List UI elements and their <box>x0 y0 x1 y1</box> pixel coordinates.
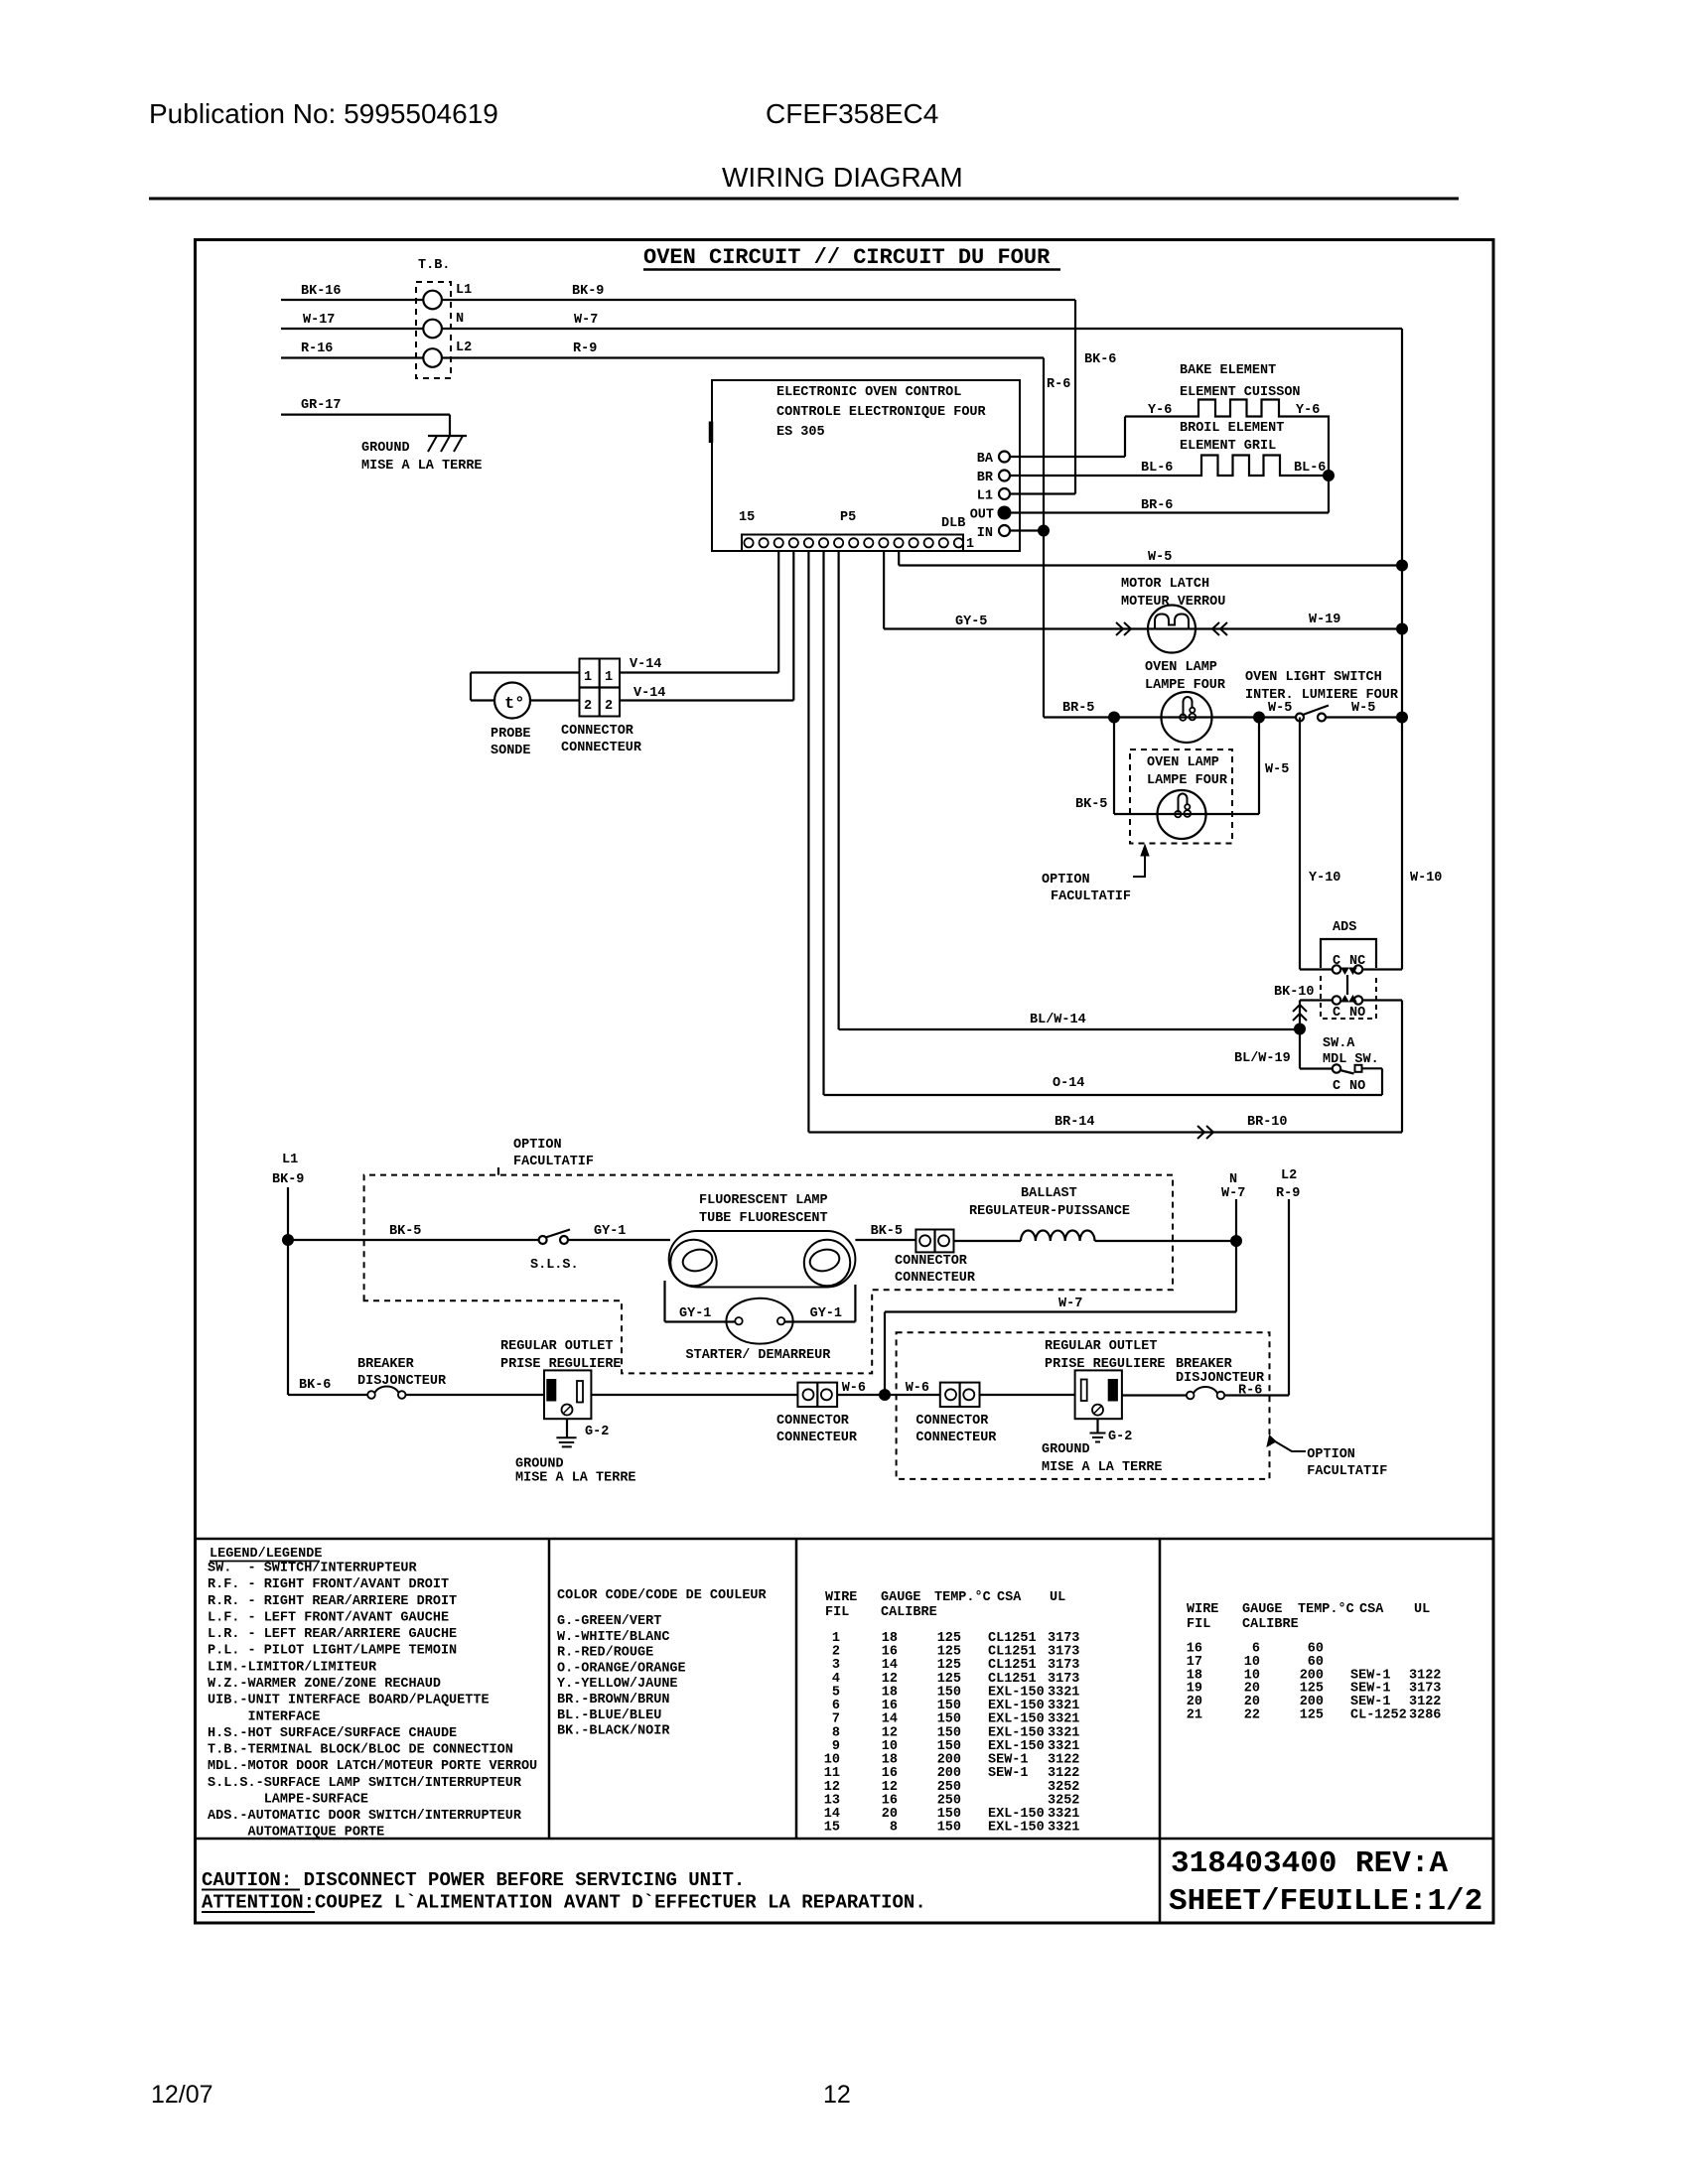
svg-text:UL: UL <box>1050 1590 1065 1605</box>
svg-text:LEGEND/LEGENDE: LEGEND/LEGENDE <box>210 1547 322 1562</box>
svg-text:Y-6: Y-6 <box>1296 403 1320 418</box>
svg-text:2: 2 <box>584 699 592 714</box>
svg-text:T.B.-TERMINAL BLOCK/BLOC DE CO: T.B.-TERMINAL BLOCK/BLOC DE CONNECTION <box>208 1743 513 1758</box>
svg-text:GY-1: GY-1 <box>594 1224 626 1239</box>
svg-text:L1: L1 <box>282 1153 298 1167</box>
svg-text:EXL-150: EXL-150 <box>988 1821 1045 1836</box>
svg-text:BREAKER: BREAKER <box>357 1357 415 1372</box>
svg-text:21: 21 <box>1187 1708 1202 1723</box>
svg-text:OUT: OUT <box>970 508 994 523</box>
svg-text:BL-6: BL-6 <box>1141 461 1173 476</box>
svg-text:NO: NO <box>1349 1006 1365 1021</box>
svg-text:GY-1: GY-1 <box>810 1306 842 1321</box>
svg-text:REGULAR OUTLET: REGULAR OUTLET <box>1045 1339 1157 1354</box>
svg-text:S.L.S.-SURFACE LAMP SWITCH/INT: S.L.S.-SURFACE LAMP SWITCH/INTERRUPTEUR <box>208 1776 522 1791</box>
svg-text:CSA: CSA <box>997 1590 1022 1605</box>
svg-text:NO: NO <box>1349 1079 1365 1094</box>
svg-text:BREAKER: BREAKER <box>1176 1357 1233 1372</box>
svg-text:t°: t° <box>504 695 524 714</box>
svg-text:W-5: W-5 <box>1265 762 1289 777</box>
svg-text:BR-14: BR-14 <box>1055 1115 1095 1130</box>
svg-text:3321: 3321 <box>1048 1821 1079 1836</box>
svg-text:SW. - SWITCH/INTERRUPTEUR: SW. - SWITCH/INTERRUPTEUR <box>208 1562 418 1576</box>
svg-text:FLUORESCENT LAMP: FLUORESCENT LAMP <box>699 1193 828 1208</box>
svg-text:GR-17: GR-17 <box>301 398 342 413</box>
svg-text:15: 15 <box>739 510 755 525</box>
svg-text:Y-10: Y-10 <box>1309 871 1340 886</box>
svg-text:BL-6: BL-6 <box>1294 461 1326 476</box>
svg-text:OPTION: OPTION <box>1307 1447 1355 1462</box>
svg-text:FACULTATIF: FACULTATIF <box>1051 889 1131 904</box>
svg-text:GROUND: GROUND <box>1042 1442 1090 1457</box>
svg-text:P.L. - PILOT LIGHT/LAMPE TEMOI: P.L. - PILOT LIGHT/LAMPE TEMOIN <box>208 1644 457 1659</box>
svg-text:OVEN LAMP: OVEN LAMP <box>1147 755 1219 770</box>
svg-text:8: 8 <box>890 1821 898 1836</box>
svg-text:R-6: R-6 <box>1047 377 1070 392</box>
svg-text:CALIBRE: CALIBRE <box>881 1605 937 1620</box>
svg-text:L.F. - LEFT FRONT/AVANT GAUCHE: L.F. - LEFT FRONT/AVANT GAUCHE <box>208 1610 449 1625</box>
svg-text:BA: BA <box>977 452 994 467</box>
svg-text:UIB.-UNIT INTERFACE BOARD/PLAQ: UIB.-UNIT INTERFACE BOARD/PLAQUETTE <box>208 1694 490 1708</box>
svg-text:ELEMENT CUISSON: ELEMENT CUISSON <box>1180 385 1301 400</box>
svg-text:C: C <box>1333 1079 1340 1094</box>
svg-text:W-17: W-17 <box>303 313 335 328</box>
svg-text:SEW-1: SEW-1 <box>988 1766 1029 1781</box>
svg-text:FIL: FIL <box>825 1605 849 1620</box>
svg-text:OVEN CIRCUIT // CIRCUIT DU FOU: OVEN CIRCUIT // CIRCUIT DU FOUR <box>643 245 1051 270</box>
svg-text:FIL: FIL <box>1187 1617 1210 1632</box>
svg-text:V-14: V-14 <box>633 686 665 701</box>
svg-text:P5: P5 <box>840 510 856 525</box>
svg-text:DLB: DLB <box>941 516 965 531</box>
svg-text:AUTOMATIQUE PORTE: AUTOMATIQUE PORTE <box>208 1826 384 1841</box>
svg-text:Y.-YELLOW/JAUNE: Y.-YELLOW/JAUNE <box>557 1677 678 1692</box>
svg-text:3286: 3286 <box>1409 1708 1441 1723</box>
svg-text:CONNECTEUR: CONNECTEUR <box>915 1431 997 1445</box>
svg-text:SONDE: SONDE <box>491 744 531 758</box>
svg-text:MISE A LA TERRE: MISE A LA TERRE <box>1042 1460 1163 1475</box>
svg-text:BK-5: BK-5 <box>389 1224 421 1239</box>
svg-text:GROUND: GROUND <box>515 1457 564 1472</box>
svg-text:BROIL ELEMENT: BROIL ELEMENT <box>1180 421 1284 436</box>
svg-text:BR-10: BR-10 <box>1247 1115 1288 1130</box>
svg-text:R-9: R-9 <box>573 341 597 356</box>
svg-text:1: 1 <box>966 537 974 552</box>
svg-text:Publication No: 5995504619: Publication No: 5995504619 <box>149 98 498 129</box>
svg-text:Y-6: Y-6 <box>1148 403 1172 418</box>
svg-text:BK-16: BK-16 <box>301 284 342 299</box>
svg-text:CONNECTOR: CONNECTOR <box>776 1414 850 1429</box>
svg-text:G-2: G-2 <box>1108 1430 1132 1444</box>
svg-text:CONNECTOR: CONNECTOR <box>895 1254 968 1269</box>
svg-text:CONTROLE ELECTRONIQUE FOUR: CONTROLE ELECTRONIQUE FOUR <box>776 405 987 420</box>
svg-text:22: 22 <box>1244 1708 1260 1723</box>
svg-text:CONNECTEUR: CONNECTEUR <box>776 1431 858 1445</box>
svg-text:N: N <box>1229 1172 1237 1187</box>
svg-text:CONNECTEUR: CONNECTEUR <box>895 1271 976 1286</box>
svg-text:OVEN LIGHT SWITCH: OVEN LIGHT SWITCH <box>1245 670 1382 685</box>
svg-text:OPTION: OPTION <box>513 1138 562 1153</box>
svg-text:REGULAR OUTLET: REGULAR OUTLET <box>500 1339 613 1354</box>
svg-text:W-7: W-7 <box>574 313 598 328</box>
svg-text:MDL SW.: MDL SW. <box>1323 1052 1379 1067</box>
svg-text:STARTER/ DEMARREUR: STARTER/ DEMARREUR <box>686 1348 832 1363</box>
svg-text:PROBE: PROBE <box>491 727 531 742</box>
svg-text:C: C <box>1333 1006 1340 1021</box>
svg-text:CONNECTOR: CONNECTOR <box>915 1414 989 1429</box>
svg-text:ADS.-AUTOMATIC DOOR SWITCH/INT: ADS.-AUTOMATIC DOOR SWITCH/INTERRUPTEUR <box>208 1809 522 1824</box>
svg-text:MOTOR LATCH: MOTOR LATCH <box>1121 577 1209 592</box>
svg-text:ELEMENT GRIL: ELEMENT GRIL <box>1180 439 1276 454</box>
svg-text:L1: L1 <box>977 489 993 504</box>
svg-text:GAUGE: GAUGE <box>1242 1602 1283 1617</box>
svg-text:W-5: W-5 <box>1268 701 1292 716</box>
svg-text:L1: L1 <box>456 283 472 298</box>
svg-text:CAUTION: DISCONNECT POWER BEFO: CAUTION: DISCONNECT POWER BEFORE SERVICI… <box>202 1869 745 1891</box>
svg-text:R-16: R-16 <box>301 341 333 356</box>
svg-text:BL/W-19: BL/W-19 <box>1234 1051 1291 1066</box>
svg-text:W.-WHITE/BLANC: W.-WHITE/BLANC <box>557 1630 669 1645</box>
svg-text:BL.-BLUE/BLEU: BL.-BLUE/BLEU <box>557 1708 661 1723</box>
svg-text:LAMPE FOUR: LAMPE FOUR <box>1147 773 1228 788</box>
svg-text:W-7: W-7 <box>1058 1297 1082 1311</box>
svg-text:ATTENTION:COUPEZ L`ALIMENTATIO: ATTENTION:COUPEZ L`ALIMENTATION AVANT D`… <box>202 1892 926 1914</box>
svg-text:R-6: R-6 <box>1238 1384 1262 1399</box>
svg-text:O-14: O-14 <box>1053 1076 1084 1091</box>
svg-text:COLOR CODE/CODE DE COULEUR: COLOR CODE/CODE DE COULEUR <box>557 1588 768 1603</box>
svg-text:OVEN LAMP: OVEN LAMP <box>1145 660 1217 675</box>
svg-text:GY-5: GY-5 <box>955 614 987 629</box>
svg-text:ADS: ADS <box>1333 920 1356 935</box>
svg-text:GROUND: GROUND <box>361 441 410 456</box>
svg-text:N: N <box>456 312 464 327</box>
svg-text:G.-GREEN/VERT: G.-GREEN/VERT <box>557 1614 661 1629</box>
svg-text:R.-RED/ROUGE: R.-RED/ROUGE <box>557 1646 653 1661</box>
svg-text:G-2: G-2 <box>585 1425 609 1439</box>
svg-text:MDL.-MOTOR DOOR LATCH/MOTEUR P: MDL.-MOTOR DOOR LATCH/MOTEUR PORTE VERRO… <box>208 1759 537 1774</box>
svg-text:CL-1252: CL-1252 <box>1350 1708 1407 1723</box>
svg-text:LAMPE-SURFACE: LAMPE-SURFACE <box>208 1792 368 1807</box>
svg-text:NC: NC <box>1349 954 1365 969</box>
svg-text:S.L.S.: S.L.S. <box>530 1258 579 1273</box>
svg-text:BK-9: BK-9 <box>272 1172 304 1187</box>
svg-text:W-10: W-10 <box>1410 871 1442 886</box>
svg-text:GY-1: GY-1 <box>679 1306 711 1321</box>
svg-text:BL/W-14: BL/W-14 <box>1030 1013 1086 1027</box>
svg-text:IN: IN <box>977 526 993 541</box>
svg-text:W-6: W-6 <box>906 1381 929 1396</box>
svg-text:UL: UL <box>1414 1602 1430 1617</box>
svg-text:L2: L2 <box>456 341 472 355</box>
svg-text:BR-6: BR-6 <box>1141 498 1173 513</box>
svg-text:CALIBRE: CALIBRE <box>1242 1617 1299 1632</box>
svg-text:R-9: R-9 <box>1276 1186 1300 1201</box>
svg-text:W-5: W-5 <box>1148 550 1172 565</box>
svg-text:BK-5: BK-5 <box>871 1224 903 1239</box>
svg-text:MISE A LA TERRE: MISE A LA TERRE <box>361 459 483 474</box>
svg-text:GAUGE: GAUGE <box>881 1590 921 1605</box>
svg-text:LAMPE FOUR: LAMPE FOUR <box>1145 678 1226 693</box>
svg-text:2: 2 <box>605 699 613 714</box>
svg-text:L2: L2 <box>1281 1168 1297 1183</box>
svg-text:W-7: W-7 <box>1221 1186 1245 1201</box>
svg-text:WIRE: WIRE <box>825 1590 857 1605</box>
svg-text:CONNECTOR: CONNECTOR <box>561 724 634 739</box>
svg-text:WIRE: WIRE <box>1187 1602 1218 1617</box>
svg-text:BK.-BLACK/NOIR: BK.-BLACK/NOIR <box>557 1724 670 1739</box>
svg-text:V-14: V-14 <box>630 657 661 672</box>
svg-text:318403400 REV:A: 318403400 REV:A <box>1171 1846 1448 1881</box>
svg-text:SW.A: SW.A <box>1323 1036 1355 1051</box>
svg-text:L.R. - LEFT REAR/ARRIERE GAUCH: L.R. - LEFT REAR/ARRIERE GAUCHE <box>208 1627 457 1642</box>
svg-text:W-6: W-6 <box>842 1381 866 1396</box>
svg-text:TUBE FLUORESCENT: TUBE FLUORESCENT <box>699 1211 828 1226</box>
svg-text:15: 15 <box>824 1821 840 1836</box>
svg-text:DISJONCTEUR: DISJONCTEUR <box>357 1374 447 1389</box>
svg-text:BK-6: BK-6 <box>299 1378 331 1393</box>
svg-text:ELECTRONIC OVEN CONTROL: ELECTRONIC OVEN CONTROL <box>776 385 961 400</box>
svg-text:MOTEUR VERROU: MOTEUR VERROU <box>1121 595 1225 610</box>
svg-text:CONNECTEUR: CONNECTEUR <box>561 741 642 755</box>
svg-text:ES 305: ES 305 <box>776 425 825 440</box>
svg-text:BALLAST: BALLAST <box>1021 1186 1077 1201</box>
svg-text:BR: BR <box>977 471 994 485</box>
svg-text:BK-5: BK-5 <box>1075 797 1107 812</box>
svg-text:FACULTATIF: FACULTATIF <box>513 1155 594 1169</box>
svg-text:1: 1 <box>584 670 592 685</box>
svg-text:R.F. - RIGHT FRONT/AVANT DROIT: R.F. - RIGHT FRONT/AVANT DROIT <box>208 1577 449 1592</box>
svg-text:BAKE ELEMENT: BAKE ELEMENT <box>1180 363 1276 378</box>
svg-text:H.S.-HOT SURFACE/SURFACE CHAUD: H.S.-HOT SURFACE/SURFACE CHAUDE <box>208 1726 457 1741</box>
svg-text:CFEF358EC4: CFEF358EC4 <box>766 98 938 129</box>
svg-text:W-19: W-19 <box>1309 613 1340 627</box>
svg-text:C: C <box>1333 954 1340 969</box>
svg-text:150: 150 <box>937 1821 961 1836</box>
svg-text:BK-6: BK-6 <box>1084 352 1116 367</box>
svg-text:OPTION: OPTION <box>1042 873 1090 887</box>
svg-text:WIRING DIAGRAM: WIRING DIAGRAM <box>722 162 963 193</box>
svg-text:MISE A LA TERRE: MISE A LA TERRE <box>515 1471 636 1486</box>
svg-text:O.-ORANGE/ORANGE: O.-ORANGE/ORANGE <box>557 1661 686 1676</box>
svg-text:LIM.-LIMITOR/LIMITEUR: LIM.-LIMITOR/LIMITEUR <box>208 1660 377 1675</box>
svg-text:BR-5: BR-5 <box>1062 701 1094 716</box>
svg-text:BR.-BROWN/BRUN: BR.-BROWN/BRUN <box>557 1693 669 1707</box>
svg-text:BK-10: BK-10 <box>1274 985 1315 1000</box>
svg-text:W.Z.-WARMER ZONE/ZONE RECHAUD: W.Z.-WARMER ZONE/ZONE RECHAUD <box>208 1677 441 1692</box>
svg-text:125: 125 <box>1300 1708 1324 1723</box>
svg-text:CSA: CSA <box>1359 1602 1384 1617</box>
svg-text:R.R. - RIGHT REAR/ARRIERE DROI: R.R. - RIGHT REAR/ARRIERE DROIT <box>208 1594 457 1609</box>
svg-text:TEMP.°C: TEMP.°C <box>934 1590 991 1605</box>
svg-text:SHEET/FEUILLE:1/2: SHEET/FEUILLE:1/2 <box>1169 1884 1482 1919</box>
svg-text:REGULATEUR-PUISSANCE: REGULATEUR-PUISSANCE <box>969 1204 1130 1219</box>
svg-text:TEMP.°C: TEMP.°C <box>1298 1602 1354 1617</box>
svg-text:12: 12 <box>823 2081 851 2109</box>
svg-text:W-5: W-5 <box>1351 701 1375 716</box>
svg-text:FACULTATIF: FACULTATIF <box>1307 1464 1387 1479</box>
svg-text:12/07: 12/07 <box>151 2081 213 2109</box>
svg-text:T.B.: T.B. <box>418 258 450 273</box>
svg-text:1: 1 <box>605 670 613 685</box>
svg-text:BK-9: BK-9 <box>572 284 604 299</box>
svg-text:INTERFACE: INTERFACE <box>208 1709 320 1724</box>
